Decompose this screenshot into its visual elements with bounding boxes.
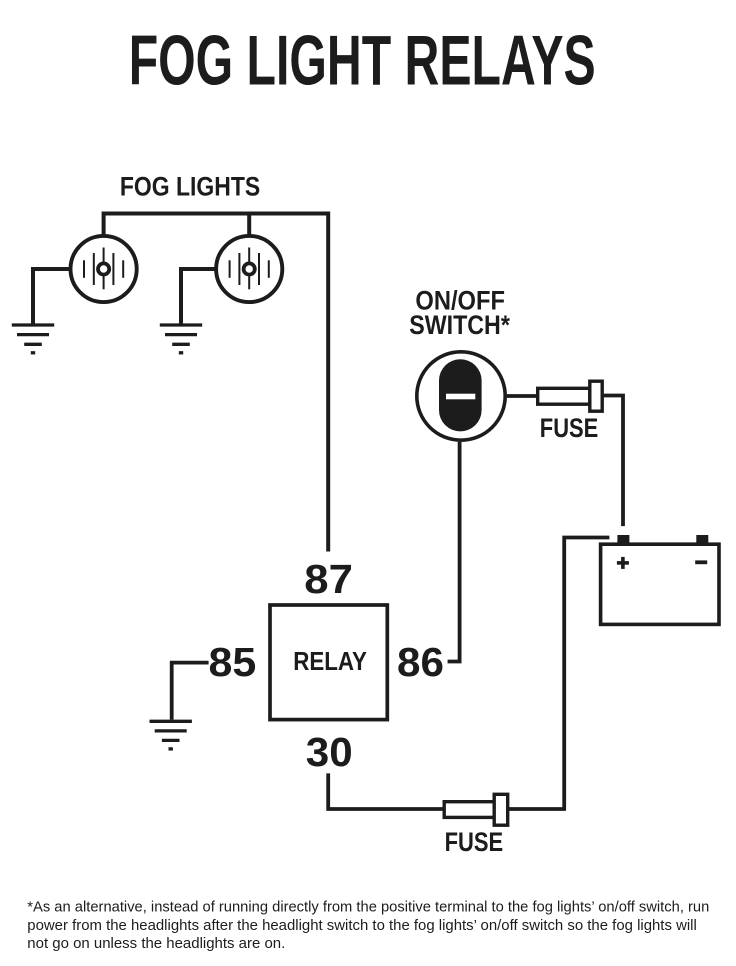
- wire relay 30 to fuse F2: [328, 773, 444, 809]
- wire fog light L2 to ground: [181, 269, 216, 324]
- battery minus sign: [695, 560, 707, 564]
- svg-text:not go on unless the headlight: not go on unless the headlights are on.: [27, 935, 285, 952]
- svg-text:FUSE: FUSE: [445, 827, 504, 857]
- svg-text:power from the headlights afte: power from the headlights after the head…: [27, 917, 697, 934]
- ground G1: [12, 325, 54, 353]
- svg-text:86: 86: [397, 639, 444, 685]
- fog light L1 lamp body: [71, 236, 137, 302]
- wire relay 85 to ground: [172, 663, 209, 720]
- wire fuse F1 to battery positive: [602, 396, 623, 527]
- fuse F1 end cap: [590, 381, 602, 411]
- switch S1 rocker mark: [446, 394, 475, 400]
- svg-text:*As an alternative, instead of: *As an alternative, instead of running d…: [27, 899, 709, 916]
- fuse F2 body: [444, 802, 494, 818]
- svg-text:SWITCH*: SWITCH*: [409, 310, 510, 340]
- wire relay 86 to switch: [448, 442, 460, 662]
- wire fog light L1 to ground: [33, 269, 70, 324]
- wire switch to fuse F1: [507, 394, 539, 398]
- wire top rail from fog light 1 to relay 87: [104, 214, 329, 552]
- fog light L2 bulb center: [244, 263, 255, 274]
- fuse F1 body: [538, 388, 590, 404]
- switch S1 body: [417, 352, 505, 440]
- ground G3: [150, 721, 192, 749]
- fuse F2 end cap: [494, 794, 508, 825]
- ground G2: [160, 325, 202, 353]
- svg-text:85: 85: [209, 639, 257, 685]
- battery B1 positive terminal: [617, 535, 629, 545]
- svg-text:FUSE: FUSE: [540, 413, 599, 443]
- switch S1 rocker: [439, 359, 482, 431]
- svg-text:RELAY: RELAY: [293, 646, 367, 676]
- wire fuse F2 to battery feed: [508, 807, 566, 811]
- svg-text:FOG LIGHTS: FOG LIGHTS: [120, 172, 260, 202]
- fog light L1 lens lines: [84, 248, 123, 290]
- fog light L2 lens lines: [230, 248, 269, 290]
- svg-text:FOG LIGHT RELAYS: FOG LIGHT RELAYS: [129, 21, 596, 100]
- fog light L1 bulb center: [98, 263, 109, 274]
- svg-text:30: 30: [306, 729, 353, 775]
- svg-text:87: 87: [304, 556, 353, 602]
- battery plus sign: [617, 557, 629, 569]
- relay K1 box: [270, 605, 387, 720]
- battery B1 negative terminal: [696, 535, 708, 545]
- battery B1 case: [601, 544, 719, 624]
- wire battery positive feed down to fuse F2: [564, 538, 609, 810]
- wire drop to fog light 2: [247, 214, 251, 237]
- fog light L2 lamp body: [216, 236, 282, 302]
